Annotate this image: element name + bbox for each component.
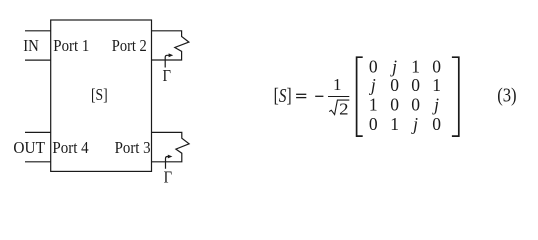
reflection arrow at Port 3 bbox=[166, 157, 169, 169]
svg-text:OUT: OUT bbox=[13, 138, 45, 157]
svg-text:0: 0 bbox=[369, 114, 378, 134]
svg-text:0: 0 bbox=[390, 95, 399, 115]
svg-text:Port 1: Port 1 bbox=[53, 36, 89, 55]
4-port network box [S] bbox=[51, 20, 152, 171]
wire OUT bottom line (Port 4) bbox=[25, 161, 51, 163]
matrix right bracket bbox=[452, 57, 459, 136]
wire OUT top line (Port 4) bbox=[25, 131, 51, 133]
svg-text:1: 1 bbox=[369, 95, 378, 115]
svg-text:Γ: Γ bbox=[163, 66, 172, 85]
svg-text:1: 1 bbox=[432, 75, 441, 95]
svg-text:2: 2 bbox=[339, 100, 348, 119]
svg-text:0: 0 bbox=[411, 95, 420, 115]
matrix row 4: 0 1 j 0 bbox=[369, 114, 441, 134]
svg-text:1: 1 bbox=[390, 114, 399, 134]
svg-text:[S]: [S] bbox=[274, 86, 292, 107]
svg-text:Γ: Γ bbox=[164, 168, 173, 187]
reflection arrow at Port 2 bbox=[165, 55, 169, 67]
svg-text:IN: IN bbox=[23, 36, 39, 55]
svg-text:0: 0 bbox=[432, 114, 441, 134]
wire IN bottom line (Port 1) bbox=[25, 59, 51, 61]
svg-text:j: j bbox=[390, 56, 397, 76]
equation: fraction bar of 1/sqrt(2) bbox=[328, 96, 349, 98]
svg-text:0: 0 bbox=[390, 75, 399, 95]
svg-text:0: 0 bbox=[432, 56, 441, 76]
svg-text:1: 1 bbox=[411, 56, 420, 76]
wire IN top line (Port 1) bbox=[25, 30, 51, 32]
equation: radical sign of sqrt(2) bbox=[329, 100, 349, 115]
svg-text:Port 4: Port 4 bbox=[52, 138, 89, 157]
svg-text:0: 0 bbox=[411, 75, 420, 95]
matrix left bracket bbox=[357, 57, 363, 136]
svg-text:j: j bbox=[369, 75, 376, 95]
reflective termination stub at Port 2 (jagged-end transmission line) bbox=[152, 31, 189, 60]
svg-text:(3): (3) bbox=[497, 85, 516, 107]
matrix row 3: 1 0 0 j bbox=[369, 95, 439, 115]
svg-text:j: j bbox=[411, 114, 418, 134]
equation: equals sign bbox=[296, 94, 323, 97]
svg-text:1: 1 bbox=[333, 75, 342, 94]
matrix row 1: 0 j 1 0 bbox=[369, 56, 441, 76]
svg-text:Port 3: Port 3 bbox=[115, 138, 151, 157]
equation: minus sign bbox=[315, 95, 323, 97]
svg-text:j: j bbox=[432, 95, 439, 115]
matrix row 2: j 0 0 1 bbox=[369, 75, 441, 95]
reflective termination stub at Port 3 (jagged-end transmission line) bbox=[152, 132, 190, 161]
svg-text:[S]: [S] bbox=[91, 85, 108, 104]
svg-text:Port 2: Port 2 bbox=[112, 36, 147, 55]
svg-text:0: 0 bbox=[369, 56, 378, 76]
